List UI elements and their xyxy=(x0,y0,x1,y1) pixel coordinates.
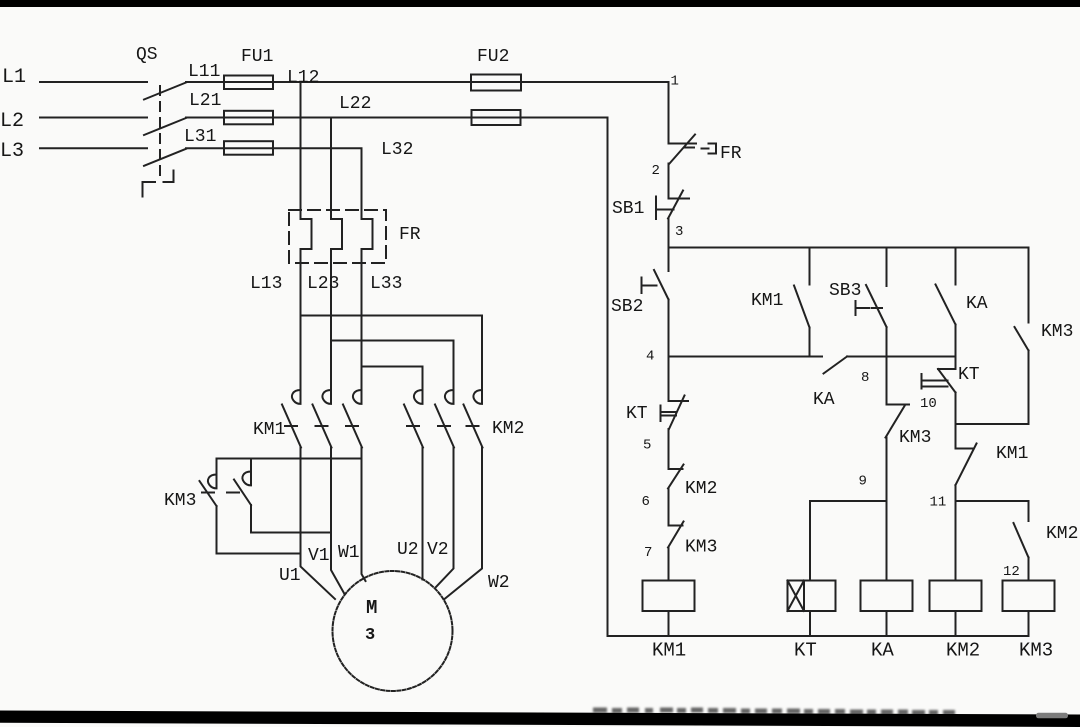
caption smudge row xyxy=(593,708,955,716)
wire column D to coil KM3 xyxy=(1028,558,1030,581)
switch QS blade pole 3 xyxy=(144,149,186,166)
fuse FU1 pole 1 xyxy=(224,76,273,90)
svg-text:KM3: KM3 xyxy=(899,428,931,448)
svg-text:KM1: KM1 xyxy=(253,420,285,440)
wire coil KM1 bottom stub xyxy=(668,611,670,636)
contactor KM2 main contact pole 2 xyxy=(435,389,454,448)
wire node 6 segment xyxy=(668,489,670,526)
wire crossover from L13 to KM2 pole 3 xyxy=(301,316,483,389)
wire column D down to cross link xyxy=(1028,351,1030,425)
wire L22 drop to FR heater 2 xyxy=(330,118,332,220)
fuse FU2 pole 1 xyxy=(471,75,521,91)
thermal relay FR heater element 3 xyxy=(362,219,373,249)
fuse FU1 pole 2 xyxy=(224,111,273,125)
svg-text:KT: KT xyxy=(958,365,980,385)
svg-text:U1: U1 xyxy=(279,566,301,586)
svg-text:9: 9 xyxy=(859,474,867,490)
svg-text:KM2: KM2 xyxy=(492,419,524,439)
switch QS linkage dashed line xyxy=(159,86,161,181)
wire motor lead V1 xyxy=(331,448,345,595)
svg-text:KT: KT xyxy=(794,640,817,662)
wire crossover from L23 to KM2 pole 2 xyxy=(331,341,454,389)
svg-text:KT: KT xyxy=(626,404,648,424)
svg-text:L21: L21 xyxy=(189,91,221,111)
svg-text:3: 3 xyxy=(365,626,375,645)
fuse FU1 pole 3 xyxy=(224,141,273,155)
wire node 11 segment xyxy=(955,485,957,501)
motor M 3~ dashed circle xyxy=(333,571,453,691)
wire node 3 bus xyxy=(669,247,1029,249)
svg-text:SB1: SB1 xyxy=(612,199,644,219)
svg-text:KM1: KM1 xyxy=(996,444,1028,464)
coil KA xyxy=(861,581,913,612)
wire node 4 bus xyxy=(669,356,823,358)
svg-text:12: 12 xyxy=(1003,564,1020,580)
svg-text:KM1: KM1 xyxy=(751,291,783,311)
svg-text:KA: KA xyxy=(966,294,988,314)
svg-text:L23: L23 xyxy=(307,274,339,294)
wire coil KA bottom stub xyxy=(886,611,888,636)
coil KM3 xyxy=(1003,581,1055,612)
coil KT with time element X box xyxy=(788,581,836,612)
svg-text:L22: L22 xyxy=(339,94,371,114)
svg-text:8: 8 xyxy=(861,370,869,386)
wire column B to node 9 xyxy=(886,438,888,502)
svg-text:KA: KA xyxy=(871,640,894,662)
svg-text:FR: FR xyxy=(720,144,742,164)
wire L11 segment to fuse FU1 and on to node 1 corner xyxy=(186,81,669,83)
svg-text:QS: QS xyxy=(136,45,158,65)
svg-text:KM3: KM3 xyxy=(164,491,196,511)
svg-text:FR: FR xyxy=(399,225,421,245)
top letterbox bar xyxy=(0,0,1080,7)
svg-text:KM1: KM1 xyxy=(652,640,686,662)
svg-text:SB2: SB2 xyxy=(611,297,643,317)
wire motor lead W2 xyxy=(445,448,483,600)
time relay contact KT (NC delayed) main column xyxy=(661,357,689,430)
svg-text:6: 6 xyxy=(642,494,650,510)
svg-text:11: 11 xyxy=(930,495,947,511)
wire L33 below FR with junction to crossover 3 xyxy=(361,249,363,388)
svg-text:L11: L11 xyxy=(188,62,220,82)
svg-text:SB3: SB3 xyxy=(829,281,861,301)
wire motor lead V2 xyxy=(436,448,454,588)
svg-text:5: 5 xyxy=(643,438,651,454)
wire motor lead W1 xyxy=(362,448,366,582)
switch QS blade pole 1 xyxy=(144,83,186,100)
svg-text:KM2: KM2 xyxy=(685,479,717,499)
wire column C drop to coil KM2 xyxy=(955,501,957,581)
contactor KM3 star contact pole 2 xyxy=(227,459,251,506)
svg-text:3: 3 xyxy=(675,224,683,240)
time relay contact KT (delayed) column C xyxy=(922,357,956,393)
contactor contact KM1 (NO self-hold) column A xyxy=(794,248,810,357)
pushbutton SB3 (NC) column B xyxy=(856,248,887,328)
coil KM2 xyxy=(930,581,982,612)
contactor contact KM3 (NC interlock) main column xyxy=(668,522,684,548)
wire coil KM2 bottom stub xyxy=(955,611,957,636)
wire node 2 segment xyxy=(668,164,670,199)
switch QS blade pole 2 xyxy=(144,118,186,135)
svg-text:FU2: FU2 xyxy=(477,47,509,67)
wire coil KT bottom stub xyxy=(809,611,811,636)
svg-text:KM3: KM3 xyxy=(1041,322,1073,342)
contactor contact KM1 column C lower xyxy=(956,424,977,485)
contactor contact KM2 (NC interlock) main column xyxy=(668,465,684,489)
contactor KM1 main contact pole 3 xyxy=(343,389,362,448)
switch QS handle xyxy=(143,171,174,197)
contactor KM3 star contact pole 1 xyxy=(200,459,217,507)
svg-text:L2: L2 xyxy=(0,110,24,133)
wire left control rail xyxy=(607,118,609,637)
svg-text:4: 4 xyxy=(646,349,654,365)
relay contact FR (NC) in control circuit xyxy=(669,135,717,164)
wire KM3 pole 2 to V1 xyxy=(251,505,331,533)
wire node 4 segment xyxy=(668,300,670,357)
svg-text:7: 7 xyxy=(644,545,652,561)
svg-text:L12: L12 xyxy=(287,68,319,88)
wire L31 segment through fuse, corner down at L32 xyxy=(186,148,362,219)
wire L13 below FR with junction to crossover 1 xyxy=(300,249,302,388)
svg-text:W1: W1 xyxy=(338,543,360,563)
contactor KM2 main contact pole 3 xyxy=(464,389,483,448)
contactor KM2 main contact pole 1 xyxy=(404,389,423,448)
svg-text:L3: L3 xyxy=(0,140,24,163)
svg-text:FU1: FU1 xyxy=(241,47,273,67)
wire bottom control rail xyxy=(608,635,1029,637)
wire crossover from L33 to KM2 pole 1 xyxy=(362,367,423,389)
svg-text:W2: W2 xyxy=(488,573,510,593)
wire L1 phase line xyxy=(40,81,147,83)
wire column B through node 4 bus xyxy=(886,327,888,405)
wire cross link columns C-D xyxy=(956,423,1029,425)
svg-text:10: 10 xyxy=(920,396,937,412)
contactor contact KM3 (NO) column B xyxy=(886,405,910,438)
wire node 1 drop from L1 row xyxy=(668,82,670,144)
coil KM1 xyxy=(643,581,695,612)
bottom letterbox bar xyxy=(0,711,1080,727)
contactor KM1 main contact pole 2 xyxy=(313,389,332,448)
thermal relay FR dashed enclosure xyxy=(289,210,386,263)
wire KM3 star bridge top rail to W1 xyxy=(217,458,362,460)
svg-text:KM2: KM2 xyxy=(1046,524,1078,544)
svg-text:V2: V2 xyxy=(427,540,449,560)
svg-text:V1: V1 xyxy=(308,546,330,566)
contactor KM1 main contact pole 1 xyxy=(282,389,301,448)
svg-text:L32: L32 xyxy=(381,140,413,160)
wire motor lead U1 xyxy=(301,448,336,600)
wire column C to cross link xyxy=(955,393,957,425)
wire coil KM3 bottom stub xyxy=(1028,611,1030,636)
svg-text:KM2: KM2 xyxy=(946,640,980,662)
wire node 5 segment xyxy=(668,429,670,469)
svg-text:L13: L13 xyxy=(250,274,282,294)
wire node 11 bus xyxy=(956,500,1029,502)
wire column B drop to coil KA xyxy=(886,501,888,581)
wire L3 phase line xyxy=(40,147,147,149)
fuse FU2 pole 2 xyxy=(472,110,521,125)
coil KT divider and X mark xyxy=(788,581,805,612)
svg-text:M: M xyxy=(366,597,377,619)
thermal relay FR heater element 2 xyxy=(331,219,342,249)
svg-text:L1: L1 xyxy=(2,66,26,89)
svg-text:L31: L31 xyxy=(184,127,216,147)
pushbutton SB1 (NC stop) xyxy=(656,191,689,220)
svg-text:U2: U2 xyxy=(397,540,419,560)
wire node 3 segment xyxy=(668,219,670,248)
wire motor lead U2 xyxy=(422,448,424,580)
svg-text:KA: KA xyxy=(813,390,835,410)
wire KM3 pole 1 to U1 xyxy=(217,506,301,554)
bottom right gray tab xyxy=(1036,713,1068,719)
wire L21 segment through fuse to left control rail corner xyxy=(186,117,608,119)
wire node 9 drop to coil KT xyxy=(809,501,811,581)
wire node 7 segment xyxy=(668,548,670,581)
wire node 9 bus xyxy=(810,500,887,502)
relay contact KA (NO) on node 4 bus xyxy=(824,357,956,374)
svg-text:KM3: KM3 xyxy=(1019,640,1053,662)
svg-text:2: 2 xyxy=(652,163,660,179)
wire L2 phase line xyxy=(40,117,147,119)
wire L12 drop to FR heater 1 xyxy=(300,82,302,219)
svg-text:KM3: KM3 xyxy=(685,538,717,558)
pushbutton SB2 (NO start) xyxy=(642,248,669,300)
relay contact KA (NO) column C xyxy=(936,248,956,325)
wire L23 below FR with junction to crossover 2 xyxy=(330,249,332,388)
svg-text:1: 1 xyxy=(671,74,679,90)
thermal relay FR heater element 1 xyxy=(301,219,312,249)
svg-text:L33: L33 xyxy=(370,274,402,294)
contactor contact KM3 (NO) column D xyxy=(1015,248,1029,351)
contactor contact KM2 (NO) column D lower xyxy=(1014,501,1029,558)
wire column C to node 4 bus xyxy=(955,325,957,357)
